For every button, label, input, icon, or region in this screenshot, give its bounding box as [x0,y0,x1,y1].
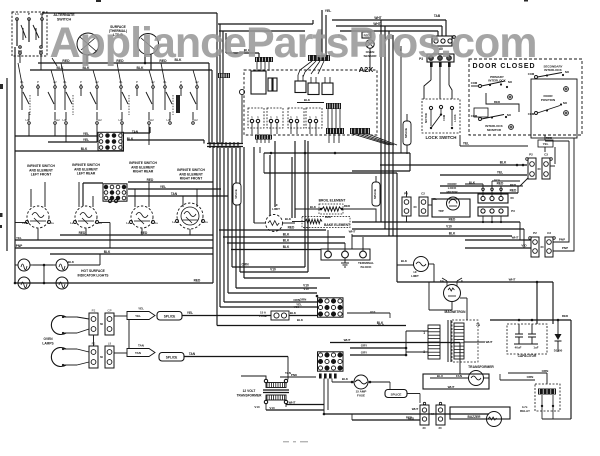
wire [292,221,305,223]
switch blade [21,25,26,38]
wire [459,135,461,146]
terminal [114,199,117,202]
wire feed to switch [92,196,94,207]
wire feed [193,70,197,84]
wire [550,165,555,167]
wire [225,33,227,53]
socket inner [439,57,441,59]
12V transformer core [263,390,289,393]
svg-text:SPLICE: SPLICE [234,189,238,199]
svg-text:TRANSFORMER: TRANSFORMER [237,394,262,398]
svg-text:1a: 1a [126,221,130,225]
junction [500,221,502,223]
fan wire [298,61,312,75]
buzzer connector C [436,402,445,425]
wire [499,374,501,380]
svg-text:LIMIT: LIMIT [411,274,419,278]
comb fan wire [363,134,394,145]
comb fan wire [353,134,389,145]
svg-text:RED: RED [546,136,553,140]
YEL wire [460,145,528,147]
comb pin wire [338,134,340,143]
svg-text:V10: V10 [254,405,260,409]
wire [430,110,432,126]
plug pin [314,119,317,122]
monitor lead box [474,108,488,117]
svg-text:P: P [80,80,82,84]
keypad box [251,71,266,94]
BLK bus [223,236,345,238]
fan motor [469,371,484,386]
left vertical wire 2 [6,78,8,251]
svg-text:1a: 1a [172,220,176,224]
wire [451,110,453,126]
none [401,45,432,47]
svg-text:SPLICE: SPLICE [166,356,178,360]
pin wire [264,62,266,71]
wire [519,222,521,240]
pin wire [260,62,262,71]
socket [447,56,452,61]
terminal W1 [19,46,22,49]
wire [406,191,408,197]
YEL bus [15,239,213,241]
stub [338,34,340,36]
comb fan wire [358,134,392,145]
none [423,377,469,379]
junction [531,319,534,322]
svg-text:INDICATOR LIGHTS: INDICATOR LIGHTS [77,274,109,278]
wire [466,298,468,320]
svg-text:V10: V10 [303,287,309,291]
terminal L2 [41,18,44,21]
connector row P3b [478,207,508,216]
trunk wire down [235,147,237,288]
svg-text:H1: H1 [26,118,30,122]
svg-text:TAN: TAN [189,352,196,356]
wire [327,245,329,251]
trunk wire down [212,147,214,283]
RED bottom bus [14,282,213,284]
PNP wire up [553,141,569,242]
hi-limit thermostat [266,215,283,232]
wire feed to switch [44,182,46,207]
wire from H terminal [96,125,98,142]
plug pin [256,119,259,122]
ground symbol [341,258,349,267]
junction [482,221,484,223]
socket inner [430,57,432,59]
wire [369,49,371,71]
wire [99,254,101,265]
plug pin [289,119,292,122]
WHT bus [397,281,553,283]
svg-text:PNP: PNP [16,244,23,248]
HV relay contact block [538,389,556,395]
connector P3 (motor pair) [402,197,411,216]
wire [419,394,421,404]
DOOR CLOSED dashed box [469,59,582,135]
svg-text:BLK: BLK [290,311,297,315]
svg-text:BLK: BLK [378,323,385,327]
door lock motor [447,197,460,210]
svg-text:1uF: 1uF [533,346,538,350]
svg-text:RED: RED [562,314,569,318]
junction [270,152,273,155]
pin wire [315,123,317,134]
junction [221,142,224,145]
infinite switch IS4 outer ring [181,207,199,225]
TAN wire [124,132,150,134]
svg-text:20: 20 [438,426,442,430]
RED bus [352,419,420,421]
svg-text:2a: 2a [51,221,55,225]
junction [217,142,220,145]
connector pin [439,62,442,67]
wire feed [51,70,55,84]
wire [307,141,309,272]
wire [77,362,89,365]
infinite switch IS3 [126,206,158,228]
svg-text:2a: 2a [205,220,209,224]
pin wire [268,140,270,144]
fan wire [303,61,316,77]
svg-text:OVEN: OVEN [43,337,53,341]
svg-text:RIGHT REAR: RIGHT REAR [133,170,154,174]
wire [141,229,143,236]
svg-text:TAN: TAN [135,351,141,355]
svg-text:YEL: YEL [463,142,469,146]
svg-text:12 VOLT: 12 VOLT [243,389,256,393]
lock switch dashed box [422,99,460,133]
svg-text:YEL: YEL [187,311,193,315]
svg-text:YEL: YEL [138,307,144,311]
wire [28,21,30,43]
svg-text:2a: 2a [155,221,159,225]
ribbon wire [327,109,329,128]
svg-text:YEL: YEL [497,171,503,175]
trunk wire down [231,147,233,267]
svg-text:60: 60 [100,322,104,326]
wire [544,147,546,152]
connector comb J4 [326,128,344,134]
trunk wire down [223,147,225,302]
wire [369,32,371,38]
pin wire [264,140,266,144]
GRY wire [350,347,406,349]
wire [86,55,88,63]
svg-text:ORN: ORN [542,369,549,373]
svg-text:BUZZER: BUZZER [468,415,482,419]
wire feed [149,70,153,84]
TAN wire [149,127,151,133]
wire [263,153,265,173]
element plug (dashed) [248,108,264,128]
svg-text:ORN: ORN [300,298,307,302]
indicator light [15,259,33,271]
wire down [327,379,329,411]
wire feed to switch [134,189,136,207]
RED bus [219,229,326,231]
socket [499,209,503,213]
YEL bus 2 [220,306,317,308]
wire tap 1 [406,330,428,332]
wire feed [93,70,97,84]
stub [446,281,448,286]
TAN wire down [287,357,289,380]
splice box SPLICE 2 [159,353,184,362]
svg-text:LAMPS: LAMPS [42,342,53,346]
wire [274,141,276,207]
svg-text:V10: V10 [270,268,276,272]
BLK bus [30,69,212,71]
pin stub [500,191,502,197]
svg-text:RED: RED [344,204,351,208]
12V transformer secondary [266,395,286,400]
relay box [322,83,333,95]
wire down [211,70,213,143]
wire [482,184,484,188]
pin wire [290,123,292,134]
svg-text:60: 60 [413,205,417,209]
svg-text:ORN: ORN [527,375,534,379]
svg-text:WHT: WHT [448,385,455,389]
surface unit switch S2 [63,80,103,124]
limiter contact [80,37,96,51]
wire [407,393,420,395]
svg-text:C2: C2 [421,192,425,196]
oven sensor [366,40,374,48]
relay box [308,83,319,95]
svg-text:WHT: WHT [509,278,516,282]
wire [77,329,89,333]
wire [82,183,84,206]
wire down to capacitor [552,282,554,324]
svg-text:RED: RED [79,231,86,235]
svg-text:20: 20 [422,426,426,430]
connector comb J5 [350,128,370,134]
wire [14,265,16,283]
fan motor box [423,374,489,389]
wire [375,176,377,182]
wire [33,282,53,284]
svg-text:H2: H2 [98,118,102,122]
trunk wire down [227,147,229,293]
edge artifact [0,0,528,228]
connector row 60 [478,194,508,203]
relay pin [552,395,554,405]
junction [316,295,319,298]
svg-text:BLK: BLK [283,233,290,237]
pin wire [310,77,312,83]
socket [499,196,503,200]
pin wire [309,123,311,134]
BLK bus [15,150,124,152]
junction [225,142,228,145]
junction [323,413,326,416]
svg-text:1a: 1a [70,221,74,225]
wire feed to switch [182,196,184,207]
svg-text:P: P [37,80,39,84]
grid pin [334,374,337,379]
comb fan wire [368,134,397,145]
fan wire [311,61,320,74]
wire [203,140,205,144]
switch blade [33,25,39,38]
BLK bus 3 [231,249,321,251]
socket [448,39,452,43]
GRY wire 2 [350,354,406,356]
pin wire [268,62,270,71]
oven lamp [51,348,77,367]
wire feed to switch [30,189,32,207]
svg-text:BLK: BLK [401,259,408,263]
bake element [305,219,322,223]
junction [552,405,554,407]
TAN wire to transformer [184,356,288,358]
svg-text:1: 1 [423,331,425,335]
svg-text:TAN: TAN [138,344,144,348]
svg-text:LOCK: LOCK [453,114,457,121]
VIO bus 2 [236,287,317,289]
svg-text:WHT: WHT [486,340,493,344]
lamp connector P2 [89,342,98,369]
buzzer [487,412,502,427]
scan artifact marks [283,441,308,442]
bottom bus [324,413,489,415]
wire [517,186,519,193]
YEL wire [321,10,323,55]
HV secondary dashed box [452,320,478,362]
junction [217,145,220,148]
YEL bus [15,135,97,137]
pin wire [297,75,299,81]
V10 wire [347,312,390,314]
RED bus [38,62,209,64]
bake element dashed box [302,217,350,228]
svg-text:1a: 1a [22,221,26,225]
svg-text:V10: V10 [269,406,275,410]
svg-text:BLK: BLK [283,239,290,243]
junction [518,319,521,322]
ORN bus [232,266,305,268]
WHT wire [351,234,353,249]
svg-text:YEL: YEL [135,314,141,318]
wire [449,85,452,99]
svg-text:BLK: BLK [449,232,456,236]
svg-text:POSITION: POSITION [541,98,555,102]
pin wire [260,140,262,144]
svg-text:D1000: D1000 [554,349,563,353]
svg-text:C3: C3 [544,153,548,157]
pin wire [256,140,258,144]
wire [291,157,293,218]
wire [484,377,490,379]
wire [259,147,261,153]
RED bus below switches [60,234,213,236]
wire [501,185,523,187]
svg-text:GRY: GRY [361,344,367,348]
plug pin [308,119,311,122]
lock contact COM [439,105,442,108]
connector pin [430,62,433,67]
magnetron [444,285,461,302]
WHT bus [330,342,460,344]
display connector comb [326,103,341,109]
terminal L1 [16,18,19,21]
svg-text:40uF: 40uF [515,346,522,350]
wire [254,222,266,224]
cavity top line [264,152,410,154]
wire feed to switch [148,182,150,207]
right edge wire [570,320,572,419]
svg-text:RED: RED [494,179,501,183]
broil element [322,207,341,211]
terminal [108,199,111,202]
pin ring [482,188,484,190]
socket [490,196,494,200]
15 amp fuse [354,375,368,389]
svg-text:RED: RED [510,189,517,193]
socket [481,196,485,200]
wire [35,28,37,40]
wire [219,30,305,32]
svg-text:RED: RED [406,416,413,420]
svg-text:PNK: PNK [291,373,298,377]
wire [406,145,408,154]
junction [86,62,89,65]
wire feed [161,63,165,84]
trunk wire [216,13,218,143]
WHT wire [465,239,531,241]
svg-text:TRP: TRP [438,209,444,213]
stub [457,278,462,281]
VIO bus [352,228,524,230]
svg-text:LOCK SWITCH: LOCK SWITCH [426,135,457,140]
svg-text:SPLICE: SPLICE [391,393,402,397]
socket inner [448,57,450,59]
junction [43,282,46,285]
wire [304,140,306,267]
wire [15,222,27,224]
svg-text:WHT: WHT [412,407,419,411]
terminal block [321,249,370,260]
svg-text:W1: W1 [18,49,23,53]
wire [352,170,410,172]
wire [144,55,146,64]
wire [41,21,43,47]
junction [225,145,228,148]
wire [542,418,571,420]
wire [544,135,546,138]
svg-text:YEL: YEL [160,185,166,189]
screw terminal 3 [564,87,569,92]
pin wire [270,123,272,134]
lock contact MOTOR [429,106,432,109]
none [218,147,220,230]
connector comb J1 [255,57,273,62]
BLK bus 2 [227,242,345,244]
grid pin [319,374,322,379]
wire from H terminal [148,125,150,145]
wire [400,46,402,153]
svg-text:BLK: BLK [310,205,317,209]
wire [406,216,408,222]
wire from H terminal [54,125,56,136]
wire [312,20,314,24]
wire [546,373,548,384]
svg-text:60: 60 [100,355,104,359]
